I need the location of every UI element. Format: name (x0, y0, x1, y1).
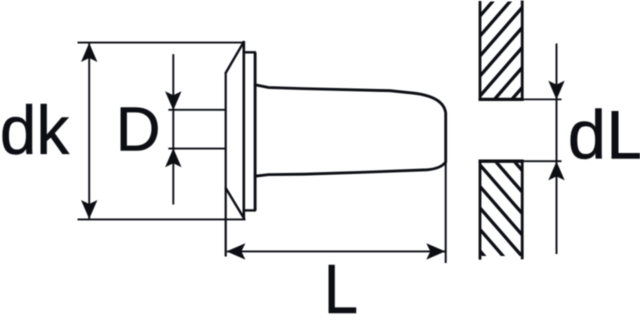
head bottom chamfer (225, 187, 244, 219)
svg-text:dk: dk (0, 92, 70, 169)
L dim arrow left (226, 243, 245, 259)
svg-text:dL: dL (568, 96, 640, 173)
flange top cap (244, 51, 256, 53)
dk dimension line (88, 44, 90, 219)
dk bottom extension line (78, 218, 246, 220)
wall lower top cap (hole bottom edge) (479, 160, 524, 163)
D dimension line (172, 54, 174, 204)
wall lower left vertical (479, 160, 482, 260)
D dim arrow down (tip on upper ext line) (165, 91, 181, 110)
flange outer vertical (254, 52, 257, 210)
head outer vertical (243, 41, 246, 219)
D lower extension line (168, 148, 225, 150)
L right extension line (445, 162, 447, 263)
svg-text:D: D (116, 96, 161, 165)
wall upper right vertical (521, 1, 524, 101)
part: head face line + L left extension (225, 73, 227, 257)
svg-text:L: L (324, 250, 358, 328)
flange bottom cap (244, 209, 256, 211)
wall lower right vertical (521, 160, 524, 259)
dL dimension line (556, 44, 558, 255)
wall upper hatch (474, 0, 528, 163)
wall lower hatch (474, 94, 528, 307)
body outline (255, 85, 446, 177)
D dim arrow up (tip on lower ext line) (165, 148, 181, 167)
L dim arrow right (426, 243, 445, 259)
wall upper bottom cap (hole top edge) (479, 98, 524, 101)
dk dim arrow down (81, 200, 97, 219)
head top chamfer (225, 41, 244, 73)
D upper extension line (168, 109, 225, 111)
wall upper left vertical (479, 1, 482, 101)
dL dim arrow down (548, 81, 564, 100)
dL upper extension line (522, 98, 562, 100)
dL dim arrow up (548, 161, 564, 180)
dL lower extension line (522, 160, 562, 162)
dk top extension line (78, 42, 245, 44)
L dimension line (227, 250, 445, 252)
dk dim arrow up (81, 43, 97, 62)
